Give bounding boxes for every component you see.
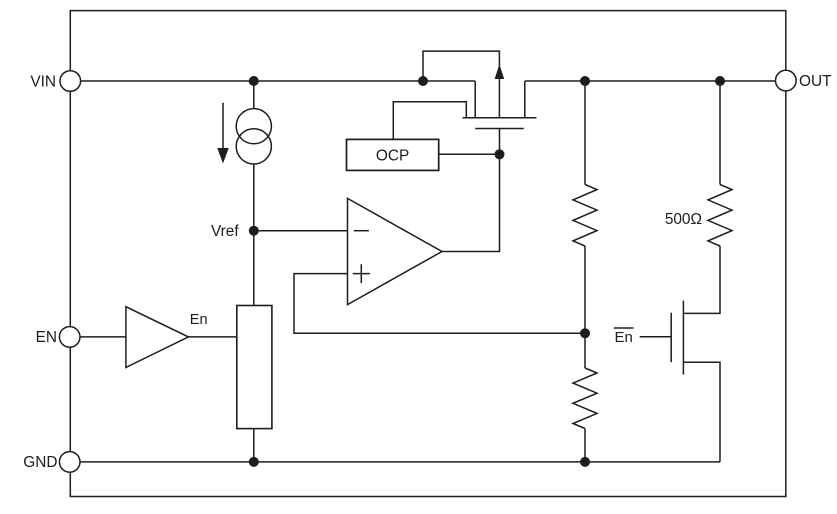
wire OCP output to gate node (439, 153, 500, 155)
wire OUT rail (right of pass FET) (525, 80, 776, 82)
wire buffer output to resistor block (188, 336, 236, 338)
op-amp U1 error amplifier (348, 198, 443, 304)
wire VIN rail (left of pass FET) (81, 80, 476, 82)
svg-text:EN: EN (36, 329, 57, 346)
node GND rail / resistor block junction dot (249, 457, 259, 467)
pin VIN circle (60, 71, 81, 92)
node gate junction dot (495, 149, 505, 159)
wire OCP sense to pass FET source (393, 102, 466, 140)
current direction arrow (down) (217, 103, 228, 164)
Q1 gate plate (475, 128, 524, 130)
wire current-source branch from VIN rail (253, 81, 255, 109)
pin EN wire to buffer (80, 336, 126, 338)
svg-text:GND: GND (23, 454, 57, 471)
wire R2 to GND rail (584, 429, 586, 462)
svg-text:En: En (190, 312, 208, 328)
transistor Q2 NMOS discharge switch (640, 301, 720, 462)
node VIN rail / current source junction dot (249, 76, 259, 86)
wire 500 ohm to Q2 drain (683, 246, 720, 313)
Q1 body arrow (up) (495, 64, 505, 79)
node OUT rail / divider junction dot (580, 76, 590, 86)
op-amp plus sign (353, 264, 370, 283)
svg-text:500Ω: 500Ω (665, 211, 702, 228)
wire R1 to feedback node (584, 246, 586, 333)
wire OUT rail to 500 ohm resistor (719, 81, 721, 185)
Q2 channel bar (682, 301, 684, 375)
node VIN rail / body-tie junction dot (418, 76, 428, 86)
resistor block (Vref setting) (237, 306, 272, 429)
svg-text:Vref: Vref (211, 223, 239, 240)
svg-text:OCP: OCP (376, 147, 409, 164)
Q2 source stub (683, 362, 720, 462)
Q2 gate lead (640, 336, 672, 338)
svg-text:En: En (615, 329, 633, 346)
svg-text:VIN: VIN (30, 73, 56, 90)
EN buffer amplifier (126, 307, 188, 368)
wire non-inverting input feedback path (294, 274, 585, 334)
node Vref junction dot (249, 226, 259, 236)
GND rail wire (80, 461, 720, 463)
Q1 drain lead (524, 81, 526, 118)
resistor R3 500 ohm (708, 185, 732, 247)
OCP block (347, 139, 439, 170)
node OUT rail / 500 ohm junction dot (715, 76, 725, 86)
node GND rail / R2 junction dot (580, 457, 590, 467)
Q1 channel bar (463, 117, 537, 119)
Q1 body tie jumper to VIN (423, 51, 499, 118)
svg-text:OUT: OUT (799, 73, 832, 90)
wire op-amp output to pass FET gate (442, 129, 500, 252)
wire feedback node to R2 (584, 333, 586, 368)
op-amp minus sign (354, 230, 369, 232)
pin EN circle (59, 327, 80, 348)
label En-bar (614, 328, 634, 346)
Q1 source lead (474, 81, 476, 118)
wire Vref to op-amp inverting input (254, 230, 348, 232)
wire current source to Vref node and resistor block top (253, 164, 255, 306)
resistor R1 feedback top (573, 185, 597, 247)
wire resistor block bottom to GND rail (253, 429, 255, 462)
Q2 gate plate (670, 313, 672, 363)
node feedback junction dot (580, 328, 590, 338)
wire OUT rail to feedback divider (584, 81, 586, 185)
resistor R2 feedback bottom (573, 368, 597, 429)
transistor Q1 PMOS pass element (423, 51, 537, 128)
pin GND circle (59, 452, 80, 473)
current source I1 (236, 109, 271, 164)
pin OUT circle (776, 70, 797, 91)
